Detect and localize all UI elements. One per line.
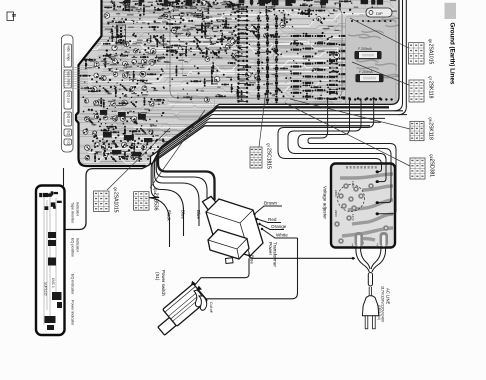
svg-text:2SA1015: 2SA1015 [428, 44, 434, 65]
brown wire [255, 206, 283, 214]
voltage adjuster board [331, 164, 395, 248]
svg-text:Q6: Q6 [428, 39, 432, 43]
wire to voltage adjuster [308, 99, 396, 214]
pointer line [259, 94, 266, 147]
pointer line [352, 62, 409, 85]
transistor table 2SB536 [134, 188, 159, 211]
ribbon [63, 68, 88, 89]
svg-text:SUP3235: SUP3235 [44, 282, 48, 296]
label box [64, 139, 72, 145]
power transformer body [206, 199, 263, 256]
DIP [366, 8, 392, 17]
transistor table 2SK118 [409, 76, 434, 102]
wire [158, 107, 389, 200]
front panel board [36, 186, 65, 336]
label box [64, 112, 72, 126]
svg-text:2SK118: 2SK118 [428, 122, 434, 140]
svg-text:F 200mA: F 200mA [359, 70, 373, 74]
wire [156, 111, 403, 198]
svg-text:Blue: Blue [181, 210, 186, 219]
svg-text:Blue: Blue [250, 255, 255, 264]
red wire [257, 219, 281, 223]
svg-text:White: White [276, 233, 288, 238]
svg-text:Q7: Q7 [266, 143, 270, 147]
wire to voltage adjuster [278, 99, 382, 172]
svg-text:Power indicator: Power indicator [71, 300, 75, 326]
blue wire to plug [249, 252, 355, 258]
terminals [189, 279, 202, 293]
svg-text:Q9: Q9 [113, 187, 117, 191]
transistor table 2SC1815 [250, 143, 272, 169]
prongs [365, 316, 368, 329]
power transformer flange [203, 196, 218, 211]
svg-text:Cut off: Cut off [209, 302, 213, 313]
label box [64, 44, 72, 67]
svg-text:Ground (Earth) Lines: Ground (Earth) Lines [449, 23, 456, 85]
main PCB board fill [76, 0, 399, 166]
wire loops [356, 248, 370, 272]
PCB outline right [146, 0, 400, 166]
svg-text:Q14: Q14 [153, 188, 157, 194]
svg-text:Transformer: Transformer [273, 242, 278, 267]
svg-text:Tape monitor: Tape monitor [71, 202, 75, 224]
svg-text:Brown: Brown [264, 201, 277, 206]
svg-text:DIP: DIP [376, 11, 383, 16]
wire [155, 115, 407, 226]
label box [64, 129, 72, 136]
plug body [362, 296, 378, 316]
wire [145, 122, 382, 247]
sub-board panel [346, 16, 397, 106]
label box [64, 70, 72, 88]
svg-text:Blue: Blue [196, 210, 201, 219]
svg-text:2SK118: 2SK118 [428, 81, 434, 99]
front panel cable [65, 126, 371, 230]
transistor table 2SK118 [410, 117, 434, 140]
svg-text:AC LINE: AC LINE [386, 288, 391, 304]
svg-text:KMC 1: KMC 1 [51, 278, 55, 288]
svg-text:Red: Red [268, 217, 277, 222]
pointer line [107, 128, 170, 190]
label column [62, 35, 74, 152]
svg-text:EQ: EQ [67, 131, 71, 136]
pointer line [150, 110, 205, 188]
switch button [158, 317, 176, 335]
wire [63, 168, 65, 186]
svg-text:EQ sel: EQ sel [67, 114, 71, 124]
svg-text:120V: 120V [351, 181, 355, 188]
wire [153, 118, 385, 236]
white wire [262, 229, 298, 238]
pointer line [350, 18, 409, 48]
pointer line [290, 99, 410, 129]
nub [226, 258, 234, 264]
svg-text:Q8: Q8 [428, 117, 432, 121]
svg-text:F 200mA: F 200mA [358, 47, 372, 51]
svg-text:EQ position: EQ position [71, 238, 75, 257]
pointer line [285, 103, 410, 166]
transistor table 2SA1015 [409, 39, 434, 65]
svg-text:Power switch: Power switch [161, 270, 166, 296]
svg-text:indicator: indicator [76, 238, 80, 253]
svg-text:LG: LG [67, 141, 71, 146]
svg-text:2SC1815: 2SC1815 [266, 148, 272, 169]
white wire to switch [203, 238, 298, 299]
wire from top right [395, 0, 403, 111]
svg-text:EQ pos: EQ pos [67, 93, 71, 104]
svg-text:Power: Power [268, 242, 273, 255]
svg-text:wide range: wide range [67, 46, 71, 62]
svg-text:Q13: Q13 [429, 154, 433, 160]
orange wire [260, 224, 285, 230]
svg-text:EQ indicator: EQ indicator [71, 274, 75, 295]
page marker [7, 12, 14, 21]
cut-off leads [194, 290, 202, 307]
power switch body [163, 284, 208, 327]
blue wire to switch [194, 258, 249, 286]
PCB outline left [76, 0, 146, 166]
svg-text:2SD381: 2SD381 [429, 159, 435, 177]
svg-text:240V: 240V [334, 190, 338, 197]
svg-text:Black: Black [167, 210, 172, 222]
section bar [445, 3, 457, 19]
wire to voltage adjuster [298, 99, 391, 203]
fuse [355, 52, 381, 59]
svg-text:Q7: Q7 [428, 76, 432, 80]
fuse [356, 75, 383, 82]
transformer front box [208, 230, 249, 260]
svg-text:2: 2 [377, 243, 379, 247]
svg-text:220V: 220V [334, 210, 338, 217]
svg-text:1: 1 [352, 243, 354, 247]
svg-text:117V: 117V [351, 214, 355, 221]
svg-text:2SB536: 2SB536 [153, 193, 159, 211]
cord capsule [368, 273, 372, 287]
svg-text:Orange: Orange [271, 224, 287, 229]
svg-text:tape mon: tape mon [67, 72, 71, 86]
transistor table 2SA1015 [94, 187, 119, 213]
svg-text:(1P51/4/4): (1P51/4/4) [377, 305, 381, 320]
svg-text:Voltage adjuster: Voltage adjuster [323, 186, 328, 219]
wire from top right [398, 0, 406, 115]
transistor table 2SD381 [410, 154, 435, 179]
svg-text:(S1): (S1) [155, 272, 160, 281]
svg-text:2SA1015: 2SA1015 [113, 192, 119, 213]
svg-text:indicator: indicator [76, 202, 80, 217]
wire to voltage adjuster [288, 99, 386, 182]
label box [64, 91, 72, 109]
